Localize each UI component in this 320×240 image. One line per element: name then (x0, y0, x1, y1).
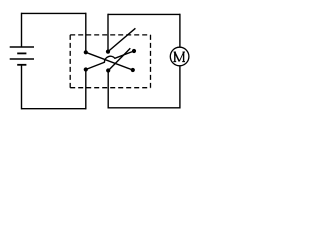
dashed box right edge (150, 35, 152, 88)
battery plate short (bottom, -) (17, 64, 26, 66)
battery plate long (+) (10, 58, 34, 60)
terminal dots (84, 49, 136, 73)
dashed box bottom edge (70, 87, 150, 89)
dashed switch box (70, 35, 150, 88)
dashed box top edge (70, 34, 150, 36)
node R2 (131, 68, 135, 72)
wire: right loop top (108, 13, 180, 15)
node L2 (84, 67, 88, 71)
wire: crossover D2 from L2 to R1 with hop over D1 (86, 51, 134, 70)
wire: left loop left upper (battery top lead) (21, 13, 23, 47)
battery B1 (10, 47, 34, 65)
wire: right loop right lower (motor bottom lead) (179, 66, 181, 109)
wire: left loop right lower, from terminal L2 down (85, 70, 87, 110)
wire: left loop top (22, 12, 86, 14)
wire: right loop left lower, from terminal M2 down (107, 71, 109, 109)
motor M: letter (drawn as paths) (173, 52, 185, 62)
switch wiring inside box (86, 28, 136, 70)
wire: right loop right upper (motor top lead) (179, 14, 181, 48)
switch blade from M2 (open, up-right) (108, 48, 130, 70)
wire: right loop left upper, into switch box to terminal M1 (107, 14, 109, 52)
node M1 (106, 50, 110, 54)
battery plate short (-) (17, 52, 26, 54)
node M2 (106, 68, 110, 72)
wire: left loop bottom (22, 108, 86, 110)
node L1 (84, 50, 88, 54)
wire: left loop right upper, into switch box to terminal L1 (85, 13, 87, 53)
battery plate long (top, +) (10, 46, 34, 48)
wire: left loop left lower (battery bottom lead) (21, 65, 23, 110)
switch blade from M1 (open, up-right) (108, 28, 135, 51)
wire: crossover D1 from L1 to R2 (86, 52, 133, 70)
dashed box left edge (69, 35, 71, 88)
node R1 (132, 49, 136, 53)
wire: right loop bottom (108, 107, 180, 109)
motor M: circle (170, 47, 189, 66)
